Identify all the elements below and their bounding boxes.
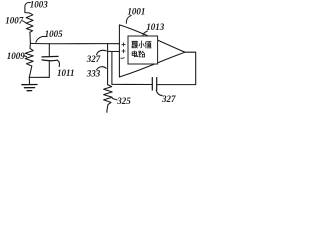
svg-text:1013: 1013 [146,22,165,32]
svg-text:327: 327 [161,94,176,104]
svg-text:327: 327 [86,54,101,64]
svg-text:1007: 1007 [5,15,24,25]
svg-text:1005: 1005 [45,29,64,39]
svg-text:1001: 1001 [127,7,145,17]
svg-text:1003: 1003 [30,0,49,9]
svg-text:325: 325 [116,96,131,106]
svg-text:1011: 1011 [57,68,75,78]
svg-text:1009: 1009 [7,51,26,61]
svg-text:333: 333 [86,69,101,79]
